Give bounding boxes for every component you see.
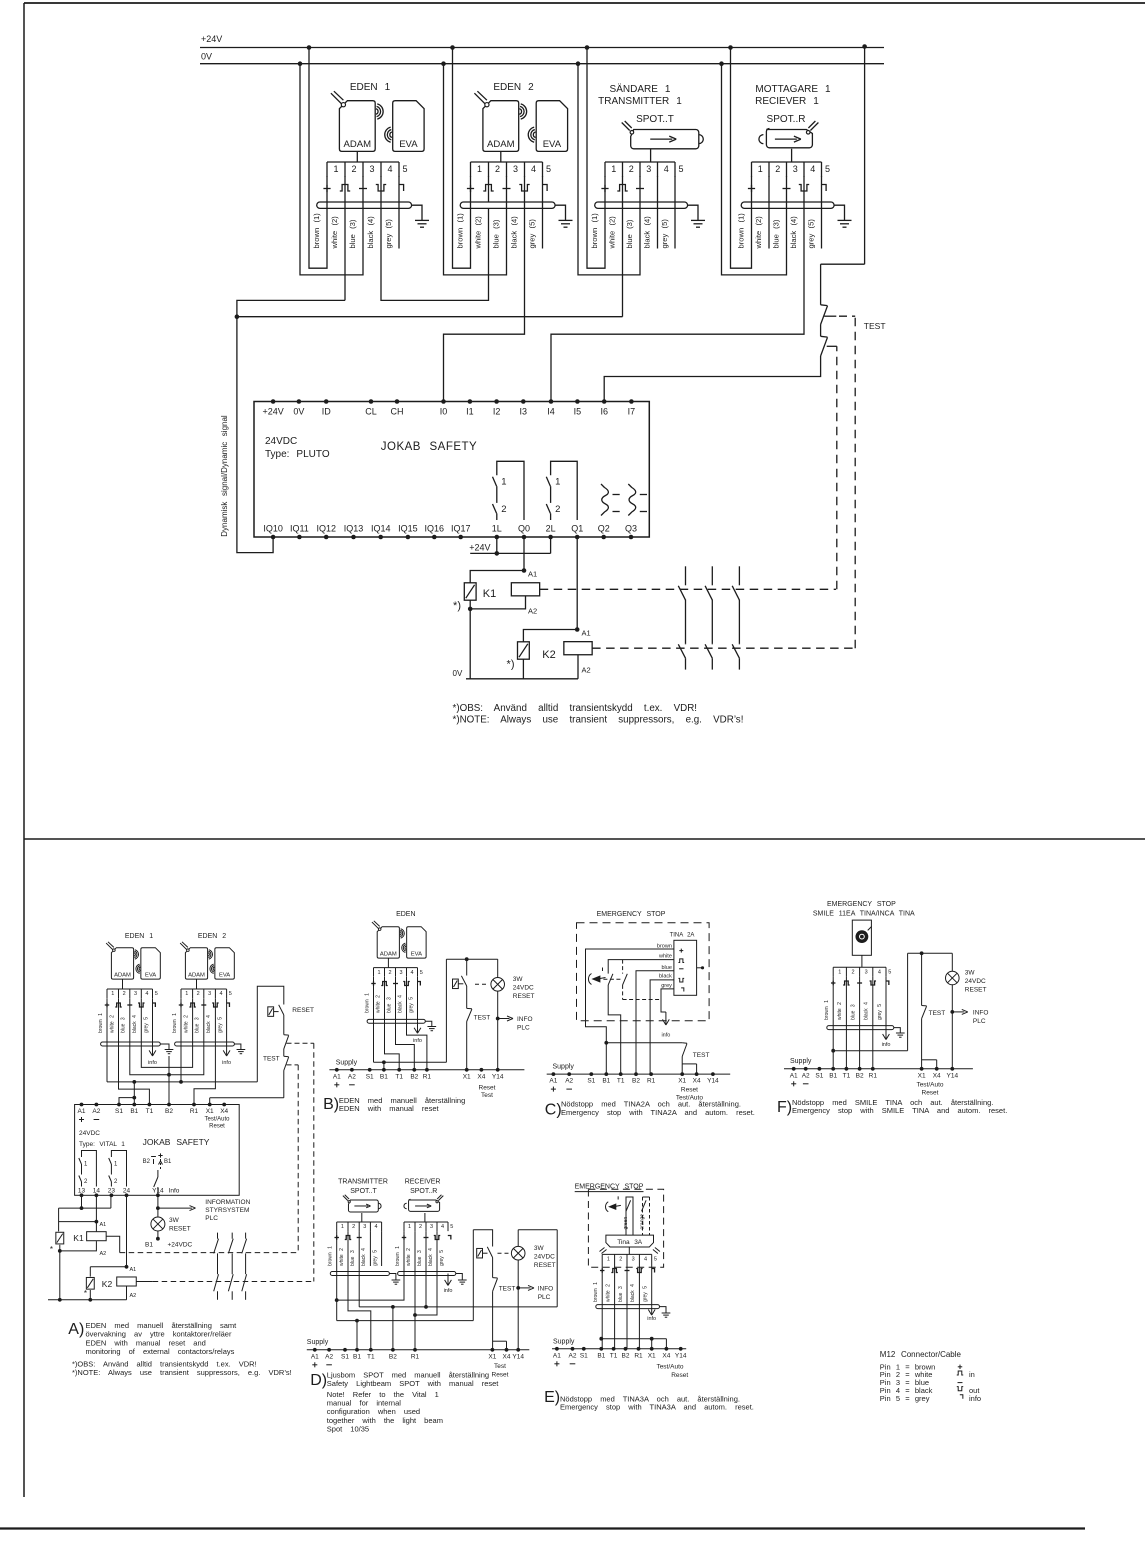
- svg-text:EDEN: EDEN: [396, 911, 415, 918]
- svg-text:B2: B2: [622, 1352, 630, 1359]
- circuit A EDEN2 cable ground: [234, 1044, 245, 1054]
- svg-text:1: 1: [758, 164, 763, 174]
- TEST switch contact 2: [821, 325, 837, 357]
- circuit D info arrow: [447, 1274, 449, 1285]
- svg-text:Emergency stop with TINA2A: Emergency stop with TINA2A and autom. re…: [561, 1108, 755, 1117]
- circuit E ground: [660, 1307, 671, 1318]
- svg-text:info: info: [148, 1060, 157, 1066]
- svg-text:Reset: Reset: [209, 1124, 225, 1130]
- svg-text:brown 1: brown 1: [824, 1000, 830, 1020]
- svg-text:5: 5: [678, 164, 683, 174]
- svg-text:SMILE 11EA TINA/INCA TINA: SMILE 11EA TINA/INCA TINA: [813, 911, 915, 918]
- circuit F TEST contact: [922, 953, 946, 1069]
- svg-text:IQ17: IQ17: [451, 524, 471, 534]
- svg-text:RESET: RESET: [965, 987, 987, 994]
- svg-text:K1: K1: [483, 588, 496, 600]
- circuit C supply line: [547, 1064, 731, 1102]
- svg-text:1L: 1L: [492, 524, 502, 534]
- svg-text:Test: Test: [494, 1363, 506, 1370]
- svg-text:*)OBS: Använd alltid transi: *)OBS: Använd alltid transientskydd t.ex…: [453, 703, 698, 714]
- circuit A relay K2: [84, 1195, 136, 1300]
- svg-text:info: info: [969, 1394, 981, 1403]
- pin function symbols: [323, 185, 367, 193]
- circuit D blue rail to lamp bracket: [359, 1230, 557, 1350]
- svg-text:Y14: Y14: [152, 1187, 164, 1194]
- svg-text:2: 2: [123, 991, 126, 997]
- svg-text:black 4: black 4: [132, 1015, 138, 1033]
- svg-text:1: 1: [607, 1257, 610, 1263]
- svg-text:black 4: black 4: [397, 995, 403, 1013]
- svg-text:INFORMATION: INFORMATION: [205, 1199, 250, 1206]
- circuit F wire labels: [824, 1000, 883, 1020]
- relay coil K1: [483, 583, 540, 600]
- svg-text:2: 2: [501, 504, 506, 515]
- svg-text:*)NOTE: Always use transien: *)NOTE: Always use transient suppressors…: [453, 715, 744, 726]
- MOTTAGARE pin symbols: [748, 185, 826, 193]
- svg-text:black (4): black (4): [510, 216, 519, 249]
- svg-text:info: info: [661, 1033, 670, 1039]
- svg-text:EDEN 1: EDEN 1: [125, 933, 153, 940]
- svg-text:blue 3: blue 3: [850, 1004, 856, 1020]
- sensor EDEN 2: [471, 82, 568, 177]
- svg-text:2: 2: [619, 1257, 622, 1263]
- VITAL 1 labels: [79, 1130, 210, 1148]
- circuit D wire R black: [413, 1231, 437, 1317]
- svg-text:white 2: white 2: [375, 995, 381, 1013]
- circuit A K1 linkage: [106, 1065, 298, 1253]
- svg-text:I1: I1: [466, 407, 474, 417]
- wire color labels: [590, 213, 669, 250]
- svg-text:SPOT..R: SPOT..R: [410, 1188, 437, 1195]
- svg-text:I7: I7: [628, 407, 636, 417]
- svg-text:2: 2: [419, 1224, 422, 1230]
- svg-text:black 4: black 4: [361, 1248, 367, 1266]
- svg-text:A1: A1: [333, 1073, 341, 1080]
- svg-text:A1: A1: [78, 1108, 86, 1115]
- circuit C TINA 2A adapter: [670, 933, 705, 996]
- PLUTO semiconductor output Q3: [628, 484, 647, 516]
- sheet divider / second page top border: [24, 838, 1145, 840]
- note transient suppressors: [453, 703, 744, 726]
- svg-text:1: 1: [341, 1224, 344, 1230]
- svg-text:B1: B1: [145, 1242, 153, 1249]
- MOTTAGARE cable ground: [834, 205, 851, 227]
- circuit F supply line: [784, 1058, 973, 1097]
- svg-text:Type: VITAL 1: Type: VITAL 1: [79, 1141, 125, 1148]
- PLUTO top terminals: [262, 399, 635, 416]
- svg-text:R1: R1: [190, 1108, 199, 1115]
- circuit F strip: [833, 966, 886, 968]
- svg-text:blue (3): blue (3): [348, 219, 357, 248]
- svg-text:A1: A1: [528, 570, 537, 579]
- circuit C TEST contact: [606, 1043, 709, 1074]
- svg-text:23: 23: [108, 1187, 116, 1194]
- circuit E dashed enclosure: [588, 1189, 663, 1267]
- svg-text:+24V: +24V: [201, 34, 222, 44]
- svg-text:grey (5): grey (5): [384, 219, 393, 249]
- svg-text:ADAM: ADAM: [487, 139, 515, 150]
- circuit A pin symbols: [105, 1003, 230, 1007]
- circuit A brown rail: [107, 998, 257, 1104]
- pin function symbols: [467, 185, 511, 193]
- svg-text:SPOT..T: SPOT..T: [350, 1188, 377, 1195]
- svg-text:TEST: TEST: [263, 1056, 280, 1063]
- svg-text:grey 5: grey 5: [372, 1250, 378, 1266]
- svg-text:2: 2: [388, 970, 391, 976]
- svg-text:T1: T1: [146, 1108, 154, 1115]
- circuit C wire grey info: [661, 989, 674, 1039]
- wire TEST to PLUTO I6: [604, 356, 820, 402]
- svg-text:3: 3: [513, 164, 518, 174]
- PLUTO bottom terminals: [263, 524, 637, 540]
- circuit C wire name labels: [657, 944, 672, 989]
- svg-text:white: white: [658, 954, 672, 960]
- svg-text:A2: A2: [528, 607, 537, 616]
- wire EDEN1 pin2 white from dynamic signal line: [344, 176, 346, 300]
- svg-text:RECIEVER 1: RECIEVER 1: [755, 96, 819, 107]
- svg-text:IQ16: IQ16: [425, 524, 445, 534]
- svg-text:A1: A1: [311, 1353, 319, 1360]
- svg-text:black (4): black (4): [789, 216, 798, 249]
- svg-text:R1: R1: [647, 1078, 656, 1085]
- circuit B RESET contact: [453, 959, 488, 1008]
- svg-text:B1: B1: [597, 1352, 605, 1359]
- svg-text:grey (5): grey (5): [807, 219, 816, 249]
- svg-text:Supply: Supply: [336, 1060, 358, 1067]
- svg-text:övervakning av yttre kontak: övervakning av yttre kontaktorer/reläer: [86, 1330, 232, 1339]
- svg-text:Safety Lightbeam SPOT with: Safety Lightbeam SPOT with manual reset: [327, 1379, 500, 1388]
- note B: [323, 1096, 465, 1113]
- svg-text:Pin 5 = grey: Pin 5 = grey: [880, 1394, 930, 1403]
- svg-text:brown (1): brown (1): [590, 213, 599, 249]
- svg-text:5: 5: [825, 164, 830, 174]
- svg-text:JOKAB SAFETY: JOKAB SAFETY: [143, 1137, 210, 1147]
- EDEN 2 pin4/pin5 symbols: [519, 185, 547, 192]
- svg-text:IQ14: IQ14: [371, 524, 391, 534]
- svg-text:Y14: Y14: [947, 1072, 959, 1079]
- circuit A info arrows: [148, 1044, 231, 1066]
- svg-text:+24V: +24V: [262, 407, 283, 417]
- circuit E orange contact loop dashed: [639, 1197, 649, 1235]
- svg-text:Dynamisk signal/Dynamic sign: Dynamisk signal/Dynamic signal: [220, 415, 229, 537]
- svg-text:Y14: Y14: [512, 1353, 524, 1360]
- wire pin3 blue to 0V rail: [441, 61, 506, 275]
- svg-text:K2: K2: [102, 1279, 113, 1289]
- circuit A K1 external contacts: [214, 1233, 247, 1275]
- circuit B wire white to T1: [385, 977, 400, 1070]
- svg-text:white 2: white 2: [406, 1248, 412, 1266]
- +24V rail: [200, 34, 884, 48]
- svg-text:brown (1): brown (1): [737, 213, 746, 249]
- circuit D reset lamp: [511, 1230, 555, 1350]
- circuit B cable ground: [425, 1021, 436, 1030]
- svg-text:B1: B1: [380, 1073, 388, 1080]
- svg-text:A2: A2: [325, 1353, 333, 1360]
- svg-text:EDEN 1: EDEN 1: [350, 82, 391, 93]
- circuit A K2 linkage: [136, 1043, 313, 1281]
- circuit F info arrow: [885, 1028, 887, 1039]
- circuit B info arrow: [417, 1021, 419, 1032]
- svg-text:A2: A2: [348, 1073, 356, 1080]
- svg-text:PLC: PLC: [973, 1018, 986, 1025]
- svg-text:green: green: [623, 1216, 629, 1229]
- svg-text:white 2: white 2: [109, 1015, 115, 1033]
- svg-text:TINA 2A: TINA 2A: [670, 933, 695, 939]
- svg-text:A2: A2: [582, 666, 591, 675]
- note A: [68, 1321, 291, 1377]
- PLUTO internal relay output 1L-Q0: [493, 461, 525, 520]
- svg-text:24VDC: 24VDC: [534, 1254, 555, 1261]
- svg-text:INFO: INFO: [517, 1016, 533, 1023]
- circuit B pin symbols: [371, 981, 420, 985]
- svg-text:EDEN with manual reset: EDEN with manual reset: [339, 1104, 440, 1113]
- svg-text:1: 1: [838, 969, 841, 975]
- wire dynamic signal net IQ10 to EDEN1 white and SPOT-T white: [235, 300, 623, 552]
- svg-text:X4: X4: [220, 1108, 228, 1115]
- wire color labels: [456, 213, 537, 250]
- svg-text:X1: X1: [463, 1073, 471, 1080]
- svg-text:R1: R1: [423, 1073, 432, 1080]
- svg-text:in: in: [969, 1370, 975, 1379]
- note F: [777, 1098, 1007, 1116]
- svg-text:I4: I4: [547, 407, 555, 417]
- svg-text:A1: A1: [100, 1222, 107, 1228]
- svg-text:3W: 3W: [513, 976, 524, 983]
- svg-text:white 2: white 2: [837, 1002, 843, 1020]
- note E: [544, 1389, 754, 1412]
- circuit F wires white blue black: [846, 977, 886, 1069]
- svg-text:B2: B2: [389, 1353, 397, 1360]
- svg-text:R1: R1: [869, 1072, 878, 1079]
- svg-text:grey (5): grey (5): [660, 219, 669, 249]
- svg-text:4: 4: [374, 1224, 377, 1230]
- circuit D wire R brown: [337, 1231, 404, 1300]
- circuit B reset lamp: [491, 959, 535, 1070]
- circuit E green contact loop: [623, 1197, 633, 1235]
- svg-text:X4: X4: [693, 1078, 701, 1085]
- circuit E info arrow: [651, 1307, 653, 1315]
- svg-text:24VDC: 24VDC: [79, 1130, 100, 1137]
- svg-text:Info: Info: [169, 1187, 180, 1194]
- svg-text:RESET: RESET: [513, 993, 535, 1000]
- wire MOTTAGARE pin4 black to PLUTO I4: [551, 176, 804, 402]
- svg-text:T1: T1: [395, 1073, 403, 1080]
- svg-text:*: *: [84, 1289, 87, 1298]
- svg-text:grey 5: grey 5: [877, 1004, 883, 1020]
- circuit A safety controller VITAL 1: [75, 1105, 240, 1196]
- wire MOTTAGARE pin2 white stub: [768, 176, 770, 249]
- svg-text:IQ10: IQ10: [263, 524, 283, 534]
- svg-text:4: 4: [410, 970, 413, 976]
- note D: [310, 1371, 499, 1434]
- svg-text:Note! Refer to the Vital: Note! Refer to the Vital 1: [327, 1390, 439, 1399]
- svg-text:3: 3: [369, 164, 374, 174]
- svg-text:info: info: [413, 1038, 422, 1044]
- svg-text:Spot 10/35: Spot 10/35: [327, 1425, 369, 1434]
- svg-text:14: 14: [93, 1187, 101, 1194]
- svg-text:brown 1: brown 1: [98, 1013, 104, 1033]
- PLUTO semiconductor output Q2: [601, 484, 620, 516]
- svg-text:4: 4: [387, 164, 392, 174]
- svg-text:ADAM: ADAM: [114, 972, 131, 978]
- svg-text:white (2): white (2): [754, 216, 763, 250]
- sensor SANDARE 1 / TRANSMITTER 1 SPOT..T: [598, 83, 703, 177]
- circuit A K2 external contacts: [214, 1274, 247, 1300]
- svg-text:IQ12: IQ12: [316, 524, 336, 534]
- svg-text:ID: ID: [322, 407, 332, 417]
- circuit C estop contact 2 dashed channel: [603, 960, 659, 1000]
- svg-text:X1: X1: [648, 1352, 656, 1359]
- svg-text:EVA: EVA: [543, 139, 562, 150]
- circuit E Tina 3A adapter: [600, 1235, 660, 1254]
- +24V feed to 1L and 2L: [469, 537, 550, 556]
- cable shield: [317, 202, 412, 208]
- wire SPOT-T pin4 black stub: [657, 176, 659, 249]
- svg-text:3: 3: [632, 1257, 635, 1263]
- svg-text:K2: K2: [542, 649, 555, 661]
- svg-text:Tina 3A: Tina 3A: [617, 1239, 643, 1246]
- svg-text:1: 1: [408, 1224, 411, 1230]
- svg-text:2L: 2L: [546, 524, 556, 534]
- svg-text:TEST: TEST: [474, 1015, 491, 1022]
- svg-text:B2: B2: [410, 1073, 418, 1080]
- svg-text:IQ11: IQ11: [290, 524, 309, 534]
- circuit A sensor EDEN 2: [180, 933, 234, 998]
- svg-text:3: 3: [399, 970, 402, 976]
- wire pin3 blue to 0V rail: [298, 61, 363, 275]
- svg-text:brown 1: brown 1: [172, 1013, 178, 1033]
- svg-text:EDEN with manual reset and: EDEN with manual reset and: [86, 1338, 206, 1347]
- circuit D receiver SPOT..R: [404, 1195, 453, 1231]
- circuit B cable: [367, 1019, 425, 1023]
- svg-text:24VDC: 24VDC: [513, 985, 534, 992]
- svg-text:IQ15: IQ15: [398, 524, 418, 534]
- sensor MOTTAGARE 1 / RECIEVER 1 SPOT..R: [752, 84, 832, 177]
- wire SPOT-T pin5 grey stub: [674, 176, 676, 249]
- svg-text:RESET: RESET: [169, 1226, 191, 1233]
- svg-text:black 4: black 4: [864, 1002, 870, 1020]
- svg-text:EVA: EVA: [411, 951, 422, 957]
- svg-text:*)NOTE: Always use transien: *)NOTE: Always use transient suppressors…: [72, 1368, 292, 1377]
- svg-text:black (4): black (4): [643, 216, 652, 249]
- svg-text:2: 2: [775, 164, 780, 174]
- circuit C wire white through estop contact to T1: [608, 960, 674, 1075]
- circuit B TEST contact: [467, 1008, 491, 1069]
- svg-text:A2: A2: [92, 1108, 100, 1115]
- circuit A wire EDEN2 black to R1: [194, 998, 215, 1104]
- svg-text:TRANSMITTER 1: TRANSMITTER 1: [598, 96, 682, 107]
- circuit D transmitter SPOT..T: [337, 1195, 382, 1231]
- svg-text:B2: B2: [165, 1108, 173, 1115]
- svg-text:3: 3: [208, 991, 211, 997]
- svg-text:I6: I6: [600, 407, 608, 417]
- svg-text:brown 1: brown 1: [328, 1246, 334, 1266]
- svg-text:13: 13: [78, 1187, 86, 1194]
- svg-text:1: 1: [501, 477, 506, 488]
- svg-text:4: 4: [644, 1257, 647, 1263]
- svg-text:white (2): white (2): [330, 216, 339, 250]
- svg-text:*: *: [50, 1245, 53, 1254]
- svg-text:Type: PLUTO: Type: PLUTO: [265, 449, 330, 460]
- svg-text:grey 5: grey 5: [439, 1250, 445, 1266]
- svg-text:EDEN 2: EDEN 2: [198, 933, 226, 940]
- circuit F pin symbols: [831, 981, 889, 985]
- svg-text:TEST: TEST: [929, 1010, 946, 1017]
- svg-text:4: 4: [810, 164, 815, 174]
- sensor EDEN 1: [327, 82, 424, 177]
- note C: [545, 1100, 755, 1119]
- TEST switch contact 1: [821, 305, 856, 325]
- svg-text:*): *): [453, 600, 461, 612]
- svg-text:Q3: Q3: [625, 524, 637, 534]
- svg-text:Supply: Supply: [553, 1064, 575, 1071]
- svg-text:brown 1: brown 1: [395, 1246, 401, 1266]
- circuit E X1 X4 auto reset jumper: [599, 1337, 666, 1349]
- svg-text:4: 4: [145, 991, 148, 997]
- circuit E pin symbols: [600, 1268, 655, 1272]
- svg-text:blue (3): blue (3): [492, 219, 501, 248]
- svg-text:B1: B1: [130, 1108, 138, 1115]
- svg-text:grey (5): grey (5): [528, 219, 537, 249]
- svg-text:1: 1: [333, 164, 338, 174]
- svg-text:CL: CL: [365, 407, 377, 417]
- svg-text:5: 5: [402, 164, 407, 174]
- svg-text:1: 1: [185, 991, 188, 997]
- svg-text:black (4): black (4): [366, 216, 375, 249]
- circuit F SMILE button: [852, 920, 871, 967]
- svg-text:INFO: INFO: [538, 1286, 554, 1293]
- circuit B wire brown to B1 and riser: [374, 959, 447, 1070]
- svg-text:info: info: [647, 1316, 656, 1322]
- page bottom edge: [0, 1527, 1085, 1529]
- svg-text:EVA: EVA: [399, 139, 418, 150]
- circuit A EDEN1 cable ground to B2: [160, 1044, 173, 1105]
- circuit D stubs T black grey R white grey: [370, 1231, 381, 1266]
- svg-text:*): *): [507, 659, 515, 671]
- svg-text:A2: A2: [565, 1078, 573, 1085]
- svg-text:D): D): [310, 1372, 327, 1389]
- wire K1 A2 to 0V: [468, 596, 537, 679]
- svg-text:X1: X1: [678, 1078, 686, 1085]
- VITAL 1 internal contacts 13-14: [79, 1151, 97, 1187]
- svg-text:1: 1: [477, 164, 482, 174]
- safety PLC PLUTO JOKAB SAFETY: [254, 402, 649, 538]
- wire pin1 brown to +24V rail: [450, 45, 470, 268]
- svg-text:blue 3: blue 3: [618, 1286, 624, 1302]
- svg-text:Supply: Supply: [307, 1339, 329, 1346]
- svg-text:manual for internal: manual for internal: [327, 1399, 401, 1408]
- svg-text:B1: B1: [602, 1078, 610, 1085]
- circuit E cable: [596, 1305, 660, 1309]
- svg-text:blue 3: blue 3: [417, 1250, 423, 1266]
- svg-text:S1: S1: [580, 1352, 588, 1359]
- svg-text:K1: K1: [73, 1233, 84, 1243]
- svg-text:Emergency stop with SMILE: Emergency stop with SMILE TINA and autom…: [792, 1106, 1007, 1115]
- wire Q1 to K2 A1: [575, 537, 591, 638]
- svg-text:I2: I2: [493, 407, 501, 417]
- svg-text:3: 3: [363, 1224, 366, 1230]
- svg-text:info: info: [882, 1042, 891, 1048]
- svg-text:blue 3: blue 3: [195, 1017, 201, 1033]
- svg-text:Test/Auto: Test/Auto: [916, 1082, 943, 1089]
- svg-text:2: 2: [352, 1224, 355, 1230]
- svg-text:together with the light be: together with the light beam: [327, 1416, 443, 1425]
- svg-text:S1: S1: [341, 1353, 349, 1360]
- circuit A wire blue EDEN1 to EDEN2 with B2 tap: [130, 998, 204, 1074]
- svg-text:TEST: TEST: [499, 1286, 516, 1293]
- svg-text:B1: B1: [829, 1072, 837, 1079]
- circuit A 0V line: [48, 1298, 127, 1302]
